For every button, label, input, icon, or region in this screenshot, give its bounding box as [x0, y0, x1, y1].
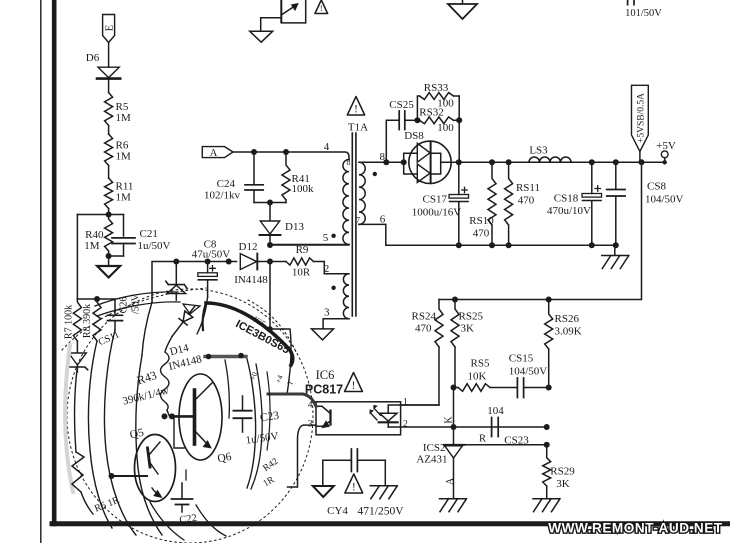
- opto pin 3 label: [308, 420, 313, 430]
- junction RS32/right: [456, 117, 462, 123]
- svg-text:RS29: RS29: [550, 466, 575, 478]
- wire K to ICS2: [453, 388, 455, 445]
- resistor RS24: [401, 300, 443, 406]
- svg-text:CY4: CY4: [327, 505, 348, 517]
- +5VSB/0.5A flag: [632, 85, 649, 162]
- border frame left outer line: [40, 0, 42, 543]
- resistor RS11: [505, 162, 540, 245]
- junction K: [451, 424, 457, 430]
- wire R40/C21 bottom: [109, 255, 124, 257]
- junction RS5 left: [451, 385, 457, 391]
- rectifier DS8: [404, 130, 451, 184]
- wire A to transformer pin4: [233, 152, 349, 160]
- diode D12: [234, 241, 270, 286]
- resistor RS5: [454, 358, 491, 392]
- svg-text:471/250V: 471/250V: [358, 506, 405, 518]
- ground top right: [448, 0, 477, 19]
- junction C24 top: [251, 149, 257, 155]
- resistor RS29: [543, 445, 576, 499]
- wire CY4 right: [384, 460, 386, 486]
- svg-text:CS25: CS25: [389, 99, 414, 111]
- svg-text:RS26: RS26: [555, 313, 580, 325]
- node E flag: [103, 15, 116, 43]
- ground below pin 3: [312, 329, 334, 340]
- svg-text:3K: 3K: [461, 323, 475, 335]
- svg-text:7: 7: [356, 216, 360, 225]
- diode D13: [260, 203, 305, 246]
- svg-text:CS18: CS18: [554, 193, 579, 205]
- secondary polarity dot: [373, 172, 377, 176]
- warning triangle above T1A: [347, 97, 364, 116]
- junction RS26 top: [546, 297, 552, 303]
- svg-text:WWW.REMONT-AUD.NET: WWW.REMONT-AUD.NET: [548, 521, 723, 536]
- junction RS25 top: [452, 297, 458, 303]
- wire feedback: [439, 162, 642, 299]
- svg-text:IN4148: IN4148: [234, 274, 268, 286]
- opto LED: [370, 405, 401, 427]
- svg-text:ICS2: ICS2: [423, 442, 446, 454]
- zener diode below R7: [67, 341, 88, 372]
- wire rail to DS8: [386, 161, 403, 163]
- svg-text:102/1kv: 102/1kv: [204, 190, 241, 202]
- svg-text:2: 2: [324, 263, 330, 275]
- svg-text:470: 470: [473, 228, 490, 240]
- opto pin 4 label: [308, 401, 313, 411]
- svg-text:RS5: RS5: [471, 358, 490, 370]
- svg-text:D13: D13: [285, 221, 304, 233]
- svg-text:D12: D12: [239, 241, 258, 253]
- svg-text:DS8: DS8: [404, 130, 424, 142]
- zener diode on VCC rail: [166, 262, 187, 301]
- resistor R6: [105, 134, 131, 166]
- resistor R9: [270, 244, 349, 279]
- svg-text:AZ431: AZ431: [416, 454, 447, 466]
- svg-text:2: 2: [403, 420, 408, 430]
- svg-text:8: 8: [347, 158, 351, 167]
- wire R5 to R6: [108, 126, 110, 135]
- svg-text:CS15: CS15: [509, 353, 534, 365]
- wire E to D6: [108, 43, 110, 68]
- capacitor CS17: [412, 162, 469, 245]
- svg-text:10K: 10K: [468, 371, 487, 383]
- node wire R7 R8 C26: [77, 296, 115, 302]
- shunt regulator ICS2 AZ431: [416, 442, 464, 499]
- wire C24/R41 bottom: [254, 202, 286, 204]
- aux winding pins 2-3: [323, 274, 349, 329]
- junction DS8 left: [401, 159, 407, 165]
- svg-text:RS25: RS25: [459, 311, 484, 323]
- ground CY4 right: [370, 486, 397, 499]
- border frame bottom heavy line: [52, 521, 730, 526]
- svg-text:R8 390k: R8 390k: [82, 304, 93, 338]
- junction RS11 top: [506, 159, 512, 248]
- capacitor C24: [204, 152, 263, 203]
- resistor RS10: [469, 162, 496, 245]
- svg-text:470: 470: [415, 323, 432, 335]
- resistor R41: [282, 152, 314, 203]
- pin 3 label: [324, 307, 330, 319]
- svg-text:D6: D6: [86, 52, 100, 64]
- junction CS18: [589, 159, 595, 248]
- node A label: [445, 477, 456, 485]
- aux polarity dot: [331, 286, 335, 290]
- wire opto pin2 node K: [388, 426, 547, 428]
- junction R/RS29: [544, 442, 550, 448]
- svg-text:R7 100k: R7 100k: [64, 305, 75, 339]
- resistor R8: [82, 299, 101, 341]
- pin 4 label: [324, 141, 330, 153]
- ground below R40: [97, 256, 120, 278]
- svg-text:C21: C21: [140, 228, 158, 240]
- resistor RS26: [545, 300, 582, 388]
- opto phototransistor: [316, 406, 331, 427]
- capacitor CS15: [490, 353, 549, 398]
- optocoupler PC817 label: [305, 383, 343, 397]
- node A flag: [202, 147, 233, 159]
- winding mark 7: [356, 216, 360, 225]
- junction R41 top: [283, 149, 289, 155]
- node K label: [443, 416, 454, 424]
- wire R6 to R11: [108, 166, 110, 179]
- svg-text:RS10: RS10: [469, 215, 494, 227]
- junction D13/D12/R9: [267, 242, 273, 265]
- opto pin 2 label: [403, 420, 408, 430]
- svg-text:4: 4: [324, 141, 330, 153]
- winding mark 8: [347, 158, 351, 167]
- capacitor CS8 104/50V: [607, 162, 684, 245]
- wire ICS2 ref R: [465, 434, 547, 445]
- ground top middle: [250, 31, 273, 42]
- capacitor CS18: [547, 162, 602, 245]
- svg-text:R9: R9: [296, 244, 309, 256]
- ground ICS2: [440, 499, 467, 512]
- svg-text:CS8: CS8: [647, 181, 666, 193]
- svg-text:!: !: [320, 4, 323, 13]
- junction CS15 right: [546, 385, 552, 391]
- ground CY4 left: [313, 486, 334, 497]
- node wire R40/C21 top: [77, 214, 123, 216]
- primary winding pins 4-5: [343, 160, 349, 245]
- wire snubber right: [458, 96, 460, 162]
- svg-text:470: 470: [518, 195, 535, 207]
- svg-text:T1A: T1A: [348, 122, 368, 134]
- svg-text:101/50V: 101/50V: [625, 8, 662, 19]
- svg-text:1M: 1M: [84, 240, 100, 252]
- junction CS17 bottom: [456, 242, 462, 248]
- wire opto pin3: [288, 425, 317, 487]
- warning triangle top middle: [315, 0, 328, 14]
- svg-text:6: 6: [380, 214, 386, 226]
- svg-text:470u/10V: 470u/10V: [547, 205, 591, 217]
- junction C8 branch: [205, 259, 211, 265]
- svg-text:3K: 3K: [556, 478, 570, 490]
- svg-text:C24: C24: [217, 178, 236, 190]
- svg-text:+5V: +5V: [656, 140, 676, 152]
- pin 2 label: [324, 263, 330, 275]
- pin 5 label: [323, 232, 329, 244]
- svg-text:100: 100: [437, 122, 454, 134]
- svg-text:K: K: [443, 416, 454, 424]
- svg-text:!: !: [352, 481, 356, 494]
- resistor R40: [84, 215, 112, 257]
- svg-text:1M: 1M: [116, 192, 132, 204]
- svg-text:10R: 10R: [292, 267, 311, 279]
- svg-text:5: 5: [323, 232, 329, 244]
- junction R40 bottom: [106, 253, 112, 259]
- junction CS25/RS32: [414, 117, 420, 123]
- primary polarity dot: [331, 234, 335, 238]
- capacitor C21: [112, 215, 171, 257]
- svg-text:/50V: /50V: [131, 293, 142, 314]
- junction pin8/snubber: [383, 159, 389, 165]
- transformer T1A label: [348, 122, 368, 134]
- CY4 value label: [358, 506, 405, 518]
- junction D13 top: [267, 200, 273, 206]
- watermark text: [548, 521, 723, 536]
- svg-text:3.09K: 3.09K: [555, 326, 582, 338]
- svg-text:R: R: [479, 434, 486, 445]
- svg-text:1M: 1M: [116, 151, 132, 163]
- wire snubber branch: [386, 120, 399, 162]
- svg-text:RS33: RS33: [424, 82, 449, 94]
- wire D12-R9 node to IC (into bubble): [269, 262, 271, 330]
- pin 8 label: [380, 151, 386, 163]
- wire secondary bottom rail: [386, 244, 616, 246]
- resistor RS32: [419, 107, 459, 135]
- pin 6 label: [380, 214, 386, 226]
- junction zener branch: [173, 259, 179, 265]
- junction rail-D12: [226, 259, 232, 265]
- wire opto pin1: [401, 404, 439, 406]
- wire RS33 left: [417, 96, 419, 120]
- secondary winding pins 8-6: [359, 162, 386, 245]
- wire CY4 left: [322, 460, 324, 486]
- wire VCC rail: [152, 262, 237, 303]
- svg-text:104/50V: 104/50V: [509, 366, 548, 378]
- svg-text:IC6: IC6: [316, 368, 335, 382]
- svg-text:1M: 1M: [116, 112, 132, 124]
- capacitor C26: [108, 293, 142, 330]
- junction CS23 right: [544, 424, 550, 430]
- ground RS29: [533, 499, 560, 512]
- capacitor C8: [192, 239, 231, 298]
- svg-text:!: !: [354, 104, 358, 116]
- transformer core: [352, 133, 356, 316]
- resistor R11: [105, 178, 134, 209]
- wire pin5: [270, 244, 349, 246]
- transistor fragment top: [261, 0, 306, 31]
- diode D6: [86, 52, 120, 79]
- opto pin 1 label: [403, 398, 408, 408]
- capacitor CS23: [487, 405, 529, 447]
- junction feedback: [639, 159, 645, 165]
- svg-text:104/50V: 104/50V: [645, 194, 684, 206]
- svg-text:1u/50V: 1u/50V: [138, 240, 171, 252]
- ground secondary: [602, 245, 629, 268]
- wire DS8 to rail right: [441, 161, 665, 163]
- magnifier bubble with distorted components (D14, R43, Q5, Q6, C22, C23, IC): [62, 288, 316, 543]
- warning triangle IC6: [345, 373, 363, 393]
- junction RS10 top: [489, 159, 495, 248]
- svg-text:!: !: [352, 379, 356, 392]
- svg-text:104: 104: [487, 405, 504, 417]
- svg-text:3: 3: [324, 307, 330, 319]
- resistor R7: [64, 299, 82, 341]
- svg-text:RS24: RS24: [412, 311, 437, 323]
- junction R11/R40: [106, 212, 112, 218]
- junction CS17 top: [456, 159, 462, 165]
- wire left branch down to R7: [76, 215, 78, 300]
- optocoupler IC6 label: [316, 368, 335, 382]
- capacitor CY4: [323, 449, 386, 517]
- svg-text:E: E: [105, 25, 116, 31]
- resistor R5: [105, 93, 131, 126]
- inductor LS3: [529, 145, 571, 163]
- svg-text:C26: C26: [119, 297, 130, 314]
- wire R11 to node: [108, 209, 110, 215]
- optocoupler IC6 body: [316, 402, 401, 435]
- wire D6 to R5: [108, 80, 110, 93]
- resistor RS33: [420, 82, 460, 110]
- svg-text:47u/50V: 47u/50V: [192, 249, 231, 261]
- warning triangle CY4: [345, 474, 363, 494]
- svg-text:A: A: [445, 477, 456, 485]
- resistor RS25: [451, 300, 483, 388]
- svg-text:Q6: Q6: [217, 451, 233, 465]
- border frame left inner heavy line: [52, 0, 57, 524]
- +5V terminal: [656, 140, 676, 165]
- svg-text:1000u/16V: 1000u/16V: [412, 207, 462, 219]
- svg-text:LS3: LS3: [529, 145, 548, 157]
- capacitor 101/50V top right: [625, 0, 662, 19]
- svg-text:100k: 100k: [292, 183, 315, 195]
- junction cer cap: [613, 159, 619, 248]
- svg-text:RS32: RS32: [419, 107, 443, 119]
- svg-text:RS11: RS11: [516, 182, 540, 194]
- svg-text:+5VSB/0.5A: +5VSB/0.5A: [636, 93, 646, 143]
- wire D13 to pin5: [270, 244, 349, 246]
- capacitor CS25: [389, 99, 417, 130]
- svg-text:1: 1: [403, 398, 408, 408]
- svg-text:A: A: [210, 148, 218, 159]
- svg-text:CS17: CS17: [423, 194, 448, 206]
- svg-text:PC817: PC817: [305, 383, 343, 397]
